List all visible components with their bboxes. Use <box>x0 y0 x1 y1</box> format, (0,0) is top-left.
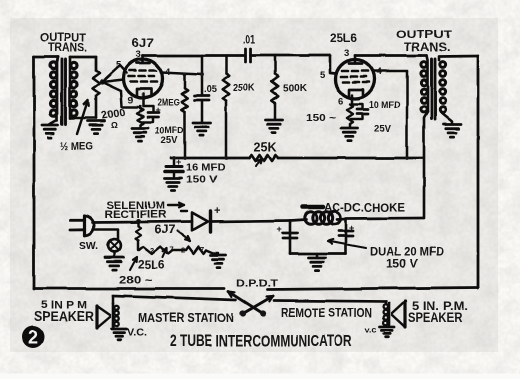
svg-text:2: 2 <box>181 246 185 255</box>
svg-text:2 TUBE INTERCOMMUNICATOR: 2 TUBE INTERCOMMUNICATOR <box>170 332 352 351</box>
svg-text:280 ~: 280 ~ <box>119 275 153 287</box>
svg-text:TRANS.: TRANS. <box>404 40 450 54</box>
svg-text:16 MFD: 16 MFD <box>186 163 225 174</box>
svg-text:SPEAKER: SPEAKER <box>408 310 462 325</box>
svg-text:250K: 250K <box>233 83 256 94</box>
svg-text:D.P.D.T: D.P.D.T <box>236 278 279 290</box>
svg-text:+: + <box>349 223 354 233</box>
svg-text:v.c: v.c <box>365 325 377 335</box>
svg-text:25V: 25V <box>374 124 392 135</box>
svg-text:DUAL 20 MFD: DUAL 20 MFD <box>370 247 444 259</box>
svg-text:2: 2 <box>150 246 154 255</box>
svg-text:150 V: 150 V <box>386 259 418 271</box>
svg-text:4: 4 <box>165 67 171 78</box>
svg-text:+: + <box>214 205 220 217</box>
svg-text:7: 7 <box>170 245 174 254</box>
svg-text:2MEG: 2MEG <box>157 98 180 109</box>
svg-text:½ MEG: ½ MEG <box>60 141 93 153</box>
svg-text:SW.: SW. <box>79 241 98 253</box>
svg-text:6: 6 <box>338 96 343 107</box>
svg-text:25L6: 25L6 <box>138 260 165 272</box>
svg-text:5: 5 <box>116 60 122 71</box>
svg-text:25V: 25V <box>161 135 179 146</box>
svg-text:4: 4 <box>377 67 383 78</box>
svg-text:150 V: 150 V <box>186 175 217 186</box>
svg-text:AC-DC.CHOKE: AC-DC.CHOKE <box>324 201 405 215</box>
svg-text:+: + <box>277 224 282 234</box>
svg-text:500K: 500K <box>283 83 308 94</box>
svg-text:5: 5 <box>320 70 326 81</box>
svg-text:REMOTE STATION: REMOTE STATION <box>281 306 372 320</box>
svg-text:6J7: 6J7 <box>132 36 154 50</box>
svg-text:150 ~: 150 ~ <box>306 113 336 124</box>
svg-text:.01: .01 <box>243 35 255 47</box>
svg-text:25K: 25K <box>254 141 277 155</box>
svg-text:2: 2 <box>28 328 38 348</box>
svg-text:3: 3 <box>344 48 349 59</box>
svg-text:MASTER STATION: MASTER STATION <box>138 311 234 325</box>
svg-text:TRANS.: TRANS. <box>48 43 87 55</box>
svg-text:25L6: 25L6 <box>330 33 357 45</box>
svg-text:10 MFD: 10 MFD <box>369 100 400 111</box>
svg-text:.05: .05 <box>204 84 218 95</box>
svg-text:7: 7 <box>200 245 204 254</box>
svg-text:9: 9 <box>128 95 133 106</box>
svg-text:6J7: 6J7 <box>154 225 175 237</box>
svg-text:RECTIFIER: RECTIFIER <box>104 209 166 221</box>
svg-text:SPEAKER: SPEAKER <box>34 309 94 324</box>
svg-text:+: + <box>176 157 181 167</box>
svg-text:Ω: Ω <box>111 120 118 130</box>
svg-text:V.C.: V.C. <box>127 327 147 339</box>
svg-text:3: 3 <box>136 49 141 60</box>
